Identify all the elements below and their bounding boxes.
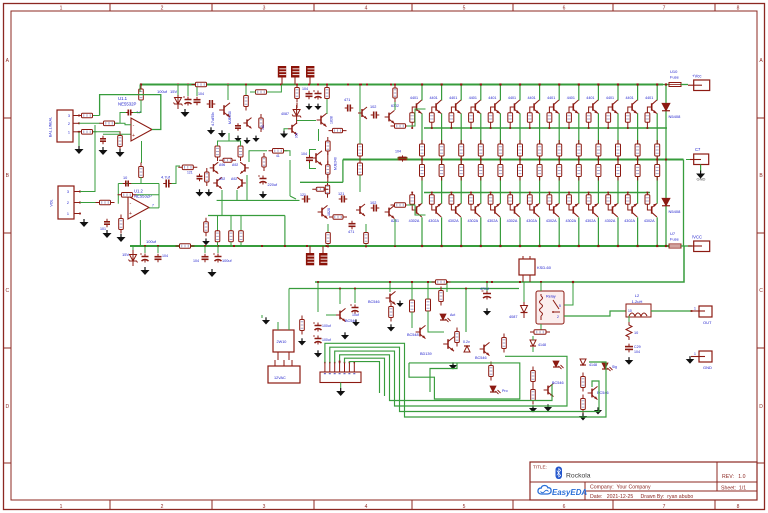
wire column 6 main: [519, 113, 521, 203]
wire diff emitter bus: [217, 199, 300, 201]
transistor Q22 A92: [213, 177, 225, 189]
wire column 8 main: [558, 113, 560, 203]
capacitor C5 101: [100, 219, 110, 231]
transistor Q4a 4401: [469, 96, 481, 113]
zener ZD2 15V: [122, 250, 138, 266]
resistor R5 fb: [139, 85, 144, 104]
resistor R60 10 zigzag: [626, 322, 638, 340]
label REV 1.0: [722, 474, 746, 480]
transistor Q4b 4302A: [467, 204, 480, 223]
connector header E2: [291, 66, 299, 85]
label U1.2: [134, 188, 152, 198]
junction col5 bottom: [499, 245, 501, 247]
transistor Q34: [243, 118, 251, 129]
ground R51: [387, 324, 395, 331]
wire column 5 main: [499, 113, 501, 203]
svg-text:104: 104: [162, 254, 168, 258]
resistor R4d base bottom: [469, 192, 474, 205]
ecap CE2: [140, 254, 149, 263]
wire vas col: [359, 84, 361, 193]
wire bias r35: [327, 152, 329, 182]
svg-text:1: 1: [60, 6, 63, 12]
junction topril x367: [366, 84, 368, 86]
resistor R38: [329, 215, 347, 219]
svg-text:4.7uf/35v: 4.7uf/35v: [211, 112, 215, 126]
label TITLE: [533, 465, 547, 470]
resistor R62: [581, 395, 586, 414]
svg-text:4087: 4087: [281, 112, 289, 116]
resistor R11b upper mid: [616, 140, 621, 161]
ground C1: [99, 147, 108, 155]
resistor R2d base bottom: [429, 192, 434, 205]
junction botrail x262: [261, 245, 263, 247]
resistor R2a base top: [429, 113, 434, 129]
ecap CE1: [183, 97, 192, 106]
wire column 7 upper: [539, 85, 541, 101]
resistor R11d base bottom: [606, 192, 611, 205]
resistor R10b upper mid: [596, 140, 601, 161]
transistor Q53 BD139: [420, 337, 454, 356]
resistor R59 inline: [530, 330, 550, 335]
junction col11 bottom: [617, 245, 619, 247]
diode D6 4087b: [509, 302, 528, 319]
svg-text:U10: U10: [670, 69, 678, 74]
junction col8 bottom: [558, 245, 560, 247]
svg-text:100uf: 100uf: [222, 259, 232, 263]
svg-text:1: 1: [60, 504, 63, 510]
wire column 1 upper: [421, 85, 423, 101]
svg-text:4302A: 4302A: [644, 219, 655, 223]
capacitor C29 104: [625, 344, 641, 354]
wire column 2 main: [441, 113, 443, 203]
resistor R58: [489, 362, 494, 381]
wire +rail top: [140, 84, 663, 86]
junction col9 top: [578, 83, 580, 85]
junction botrail x205: [204, 245, 206, 247]
svg-text:Fuse: Fuse: [670, 237, 680, 242]
junction botrail x307: [306, 245, 308, 247]
label 100uf a: [157, 89, 168, 94]
wire mid rail right drop: [683, 160, 685, 247]
junction botrail x328: [327, 245, 329, 247]
svg-text:470uf: 470uf: [480, 287, 489, 291]
wire column 11 upper: [617, 85, 619, 101]
transistor Q32 8281: [385, 205, 399, 223]
wire bias drop: [289, 160, 291, 196]
junction topril x361: [360, 84, 362, 86]
svg-text:1.2uH: 1.2uH: [632, 299, 643, 304]
svg-text:100uf: 100uf: [157, 89, 168, 94]
ground R10: [117, 234, 126, 242]
ground C5: [103, 230, 112, 238]
transistor Q7a 4401: [527, 96, 539, 113]
pin J2-1: [67, 212, 81, 216]
wire column 5 lower: [499, 217, 501, 246]
pin J1-3: [68, 114, 80, 118]
svg-text:+: +: [129, 211, 132, 217]
svg-text:2: 2: [67, 201, 69, 205]
svg-text:BC546: BC546: [475, 356, 487, 360]
svg-text:2: 2: [161, 504, 164, 510]
svg-text:104: 104: [634, 350, 640, 354]
ground PS left: [262, 317, 270, 324]
ecap CE12 10uf: [350, 305, 360, 327]
resistor R36b vbe: [312, 181, 329, 198]
junction botrail x234: [233, 245, 235, 247]
resistor R51: [389, 303, 394, 322]
wire column 9 lower: [578, 217, 580, 246]
diode D5 0.2v: [463, 340, 470, 352]
svg-text:/VCC: /VCC: [692, 235, 702, 240]
resistor R9: [118, 193, 137, 198]
wire column 6 upper: [519, 85, 521, 101]
wire L2 out: [651, 310, 691, 312]
svg-text:6: 6: [563, 6, 566, 12]
wire U1.2 out: [149, 204, 159, 208]
connector J4 header: [320, 372, 361, 383]
svg-text:4401: 4401: [410, 96, 418, 100]
junction topril x318: [317, 84, 319, 86]
wire r12 net: [250, 85, 281, 93]
resistor R19 base-base: [219, 158, 236, 162]
resistor R13a base top: [645, 113, 650, 129]
svg-text:Pro: Pro: [502, 389, 508, 393]
pin J4-6: [348, 362, 350, 374]
resistor R23: [229, 227, 234, 246]
junction col13 top: [656, 83, 658, 85]
connector J1 BAL.LINEAL: [49, 110, 74, 142]
wire long y282: [490, 281, 519, 283]
svg-text:2W10: 2W10: [277, 340, 287, 344]
svg-text:15V: 15V: [170, 89, 177, 94]
wire caps to rail: [205, 246, 218, 253]
connector KSD-60: [519, 256, 552, 282]
junction topril x395: [394, 84, 396, 86]
transistor Q1a 4401: [410, 96, 422, 113]
transistor Q9b 4302A: [565, 204, 578, 223]
svg-text:2: 2: [68, 122, 70, 126]
junction col7 bottom: [539, 245, 541, 247]
svg-text:7: 7: [663, 6, 666, 12]
junction bus: [339, 361, 341, 363]
wire U1.2 fb top: [118, 184, 159, 208]
pin J1-2: [68, 122, 80, 126]
svg-text:7: 7: [663, 504, 666, 510]
resistor R9d base bottom: [567, 192, 572, 205]
resistor R12 inline rail2: [252, 90, 271, 95]
wire column 7 main: [539, 113, 541, 203]
resistor R4c lower mid: [478, 161, 483, 181]
label U1.1: [118, 96, 137, 107]
resistor R4: [118, 132, 123, 151]
wire q51: [389, 282, 391, 292]
ground J2: [80, 219, 89, 227]
resistor R1 10k: [78, 113, 97, 118]
svg-text:D: D: [759, 404, 763, 410]
wire 470: [486, 281, 488, 291]
svg-text:+: +: [132, 133, 135, 139]
svg-text:A92: A92: [219, 177, 225, 181]
svg-text:10: 10: [123, 176, 127, 180]
wire mje1 drop: [227, 84, 229, 101]
resistor R22: [215, 227, 220, 246]
resistor R11a base top: [606, 113, 611, 129]
wire column 1 main: [421, 113, 423, 203]
resistor R4a base top: [469, 113, 474, 129]
resistor R6a base top: [508, 113, 513, 129]
wire column 13 upper: [656, 85, 658, 101]
svg-text:MJE340: MJE340: [334, 157, 338, 170]
svg-text:BC548: BC548: [407, 333, 419, 337]
wire q50: [326, 288, 356, 315]
capacitor C23 471: [344, 98, 353, 112]
wire diode column: [665, 83, 667, 247]
ground CE13: [483, 308, 491, 315]
svg-text:4: 4: [365, 6, 368, 12]
svg-text:41: 41: [276, 154, 280, 158]
wire column 10 upper: [597, 85, 599, 101]
ground C31a: [234, 136, 241, 142]
led LED2 Pro: [490, 386, 508, 394]
resistor R2c lower mid: [439, 161, 444, 181]
svg-text:C: C: [5, 288, 9, 294]
label Date DrawnBy: [590, 494, 693, 500]
connector header E5: [319, 246, 327, 265]
wire column 12 main: [637, 113, 639, 203]
svg-text:4401: 4401: [508, 96, 516, 100]
svg-text:U7: U7: [670, 231, 676, 236]
resistor R20: [215, 142, 220, 161]
transistor Q56 BC546b: [544, 381, 564, 397]
svg-text:15V: 15V: [122, 252, 129, 257]
ground Q50: [341, 332, 349, 339]
junction topril x348: [347, 84, 349, 86]
resistor R25: [269, 149, 288, 159]
wire J2 pin3 up: [80, 125, 95, 192]
capacitor C20 220uf: [258, 176, 278, 188]
svg-text:Act: Act: [450, 313, 455, 317]
capacitor C26 121: [300, 193, 310, 203]
resistor R28: [358, 159, 363, 179]
resistor R5a base top: [488, 113, 493, 129]
wire fuse U7 to VCC: [681, 245, 692, 247]
junction col4 bottom: [480, 245, 482, 247]
transistor Q6b 4302A: [507, 204, 520, 223]
ground D8 cluster: [579, 407, 602, 420]
resistor R14: [244, 92, 249, 111]
wire L2 branch: [628, 316, 630, 322]
svg-text:4302A: 4302A: [585, 219, 596, 223]
connector C7: [690, 147, 709, 165]
svg-text:121: 121: [187, 171, 193, 175]
wire C7 down: [700, 165, 702, 172]
junction col4 top: [480, 83, 482, 85]
capacitor C21 104: [301, 150, 316, 169]
svg-text:C: C: [759, 288, 763, 294]
svg-text:0.2v: 0.2v: [463, 340, 470, 344]
ground C31b: [243, 138, 250, 144]
resistor R30: [295, 84, 300, 103]
relay coil: [540, 294, 543, 320]
resistor R57: [502, 334, 507, 353]
resistor R24: [239, 227, 244, 246]
ground J1: [75, 146, 84, 154]
ground xfmr: [298, 338, 306, 345]
junction rail282 x520: [519, 281, 521, 283]
diode D8 4148: [580, 359, 597, 367]
resistor R13 inline: [176, 244, 195, 249]
svg-text:12VAC: 12VAC: [274, 376, 286, 380]
led LED3 Sig: [602, 363, 617, 371]
ground C12: [195, 189, 203, 196]
relay RL1: [536, 291, 564, 324]
junction col7 top: [539, 83, 541, 85]
wire column 7 lower: [539, 217, 541, 246]
title block grid: [530, 462, 757, 500]
svg-text:4302A: 4302A: [546, 219, 557, 223]
junction topril x188: [187, 84, 189, 86]
resistor R4b upper mid: [478, 140, 483, 161]
junction botrail x158: [157, 245, 159, 247]
ecap CE3 100uf: [213, 254, 232, 264]
wire link y368: [430, 363, 457, 392]
connector J2 VOL: [50, 186, 75, 219]
junction rail282 x390: [389, 281, 391, 283]
svg-text:Rockola: Rockola: [566, 473, 591, 480]
wire diff bus drop: [284, 216, 286, 248]
pin J4-4: [339, 362, 341, 374]
ground Q53: [449, 362, 457, 369]
svg-text:4401: 4401: [527, 96, 535, 100]
resistor R7c lower mid: [537, 161, 542, 181]
svg-text:4401: 4401: [625, 96, 633, 100]
wire drv4: [328, 224, 366, 246]
title text Rockola: [566, 473, 591, 480]
capacitor C6 104: [194, 92, 205, 105]
connector +Vcc: [688, 74, 710, 91]
svg-text:A96: A96: [219, 163, 225, 167]
resistor R27: [358, 140, 363, 160]
wire left supply: [139, 85, 141, 93]
junction col12 bottom: [637, 245, 639, 247]
wire relay right: [564, 282, 573, 305]
wire R6 bottom: [140, 177, 142, 184]
svg-text:8: 8: [737, 504, 740, 510]
junction botrail x185: [184, 245, 186, 247]
wire opamp1 supply down: [141, 141, 143, 163]
junction rail282 x412: [411, 281, 413, 283]
wire d7: [532, 336, 534, 352]
wire emitter rail top row: [424, 127, 667, 129]
pin J4-2: [329, 362, 331, 374]
label C25 104: [395, 150, 401, 154]
resistor R26v: [262, 153, 266, 171]
wire diff verticals: [222, 175, 247, 216]
diode D1 N5408: [662, 103, 681, 119]
wire bus harness: [325, 343, 606, 417]
transistor Q2a 4401: [429, 96, 441, 113]
transistor Q3a 4401: [449, 96, 461, 113]
led LED1 Act: [440, 313, 455, 322]
junction col9 bottom: [578, 245, 580, 247]
capacitor C2 4.7: [125, 110, 141, 116]
transistor Q28 6302: [385, 104, 399, 124]
svg-text:102: 102: [370, 201, 376, 205]
svg-text:Sig: Sig: [612, 365, 617, 369]
relay contact: [552, 300, 561, 319]
wire ksd relay: [524, 282, 541, 302]
svg-text:A92: A92: [232, 163, 238, 167]
capacitor C28 471: [348, 221, 356, 234]
resistor R13c lower mid: [655, 161, 660, 181]
wire vas link y181: [300, 181, 343, 183]
svg-text:L2: L2: [635, 293, 640, 298]
svg-text:KSD-60: KSD-60: [537, 265, 552, 270]
resistor R18: [204, 218, 209, 237]
wire diff bus2: [208, 215, 285, 217]
svg-text:4302A: 4302A: [467, 219, 478, 223]
label 100uf b: [146, 239, 157, 244]
resistor R7a base top: [527, 113, 532, 129]
transformer B1 2W10: [273, 330, 294, 352]
wire rail y282: [315, 246, 684, 282]
resistor R8 10k: [96, 200, 115, 205]
svg-text:102: 102: [370, 105, 376, 109]
svg-text:1k0: 1k0: [261, 125, 265, 130]
transistor Q26 1838: [317, 113, 334, 126]
transistor Q27: [358, 107, 367, 119]
transistor Q50 BC546: [336, 308, 357, 323]
resistor R61: [581, 373, 586, 392]
transistor Q55 BC546: [588, 386, 609, 399]
resistor R5b upper mid: [498, 140, 503, 161]
resistor R7d base bottom: [527, 192, 532, 205]
transistor Q13a 4401: [645, 96, 657, 113]
ground Q51: [396, 301, 403, 307]
svg-text:1: 1: [694, 352, 696, 356]
svg-text:1: 1: [68, 130, 70, 134]
svg-text:4148: 4148: [589, 363, 597, 367]
junction botrail x218: [217, 245, 219, 247]
resistor R3d base bottom: [449, 192, 454, 205]
wire opamp inputs: [103, 123, 131, 134]
resistor R9a base top: [567, 113, 572, 129]
svg-text:4401: 4401: [547, 96, 555, 100]
ground C20: [259, 191, 267, 198]
svg-text:3: 3: [68, 114, 70, 118]
svg-text:4401: 4401: [606, 96, 614, 100]
svg-text:121: 121: [300, 193, 306, 197]
svg-text:4148: 4148: [538, 343, 546, 347]
wire column 2 upper: [441, 85, 443, 101]
pin J4-5: [344, 362, 346, 374]
transistor Q5b 4302A: [487, 204, 500, 223]
junction col10 bottom: [597, 245, 599, 247]
resistor R56: [455, 328, 460, 347]
capacitor C3 4.7uf: [161, 175, 172, 188]
resistor R21: [238, 142, 243, 161]
junction col6 bottom: [519, 245, 521, 247]
svg-text:100uf: 100uf: [146, 239, 157, 244]
led LED4: [553, 361, 564, 369]
capacitor C24 102: [370, 105, 379, 119]
resistor R3c lower mid: [459, 161, 464, 181]
svg-text:N5408: N5408: [669, 114, 682, 119]
wire diff bottoms: [218, 216, 242, 247]
ground C31c: [252, 136, 259, 142]
resistor R1c lower mid: [420, 161, 425, 181]
resistor R5c lower mid: [498, 161, 503, 181]
